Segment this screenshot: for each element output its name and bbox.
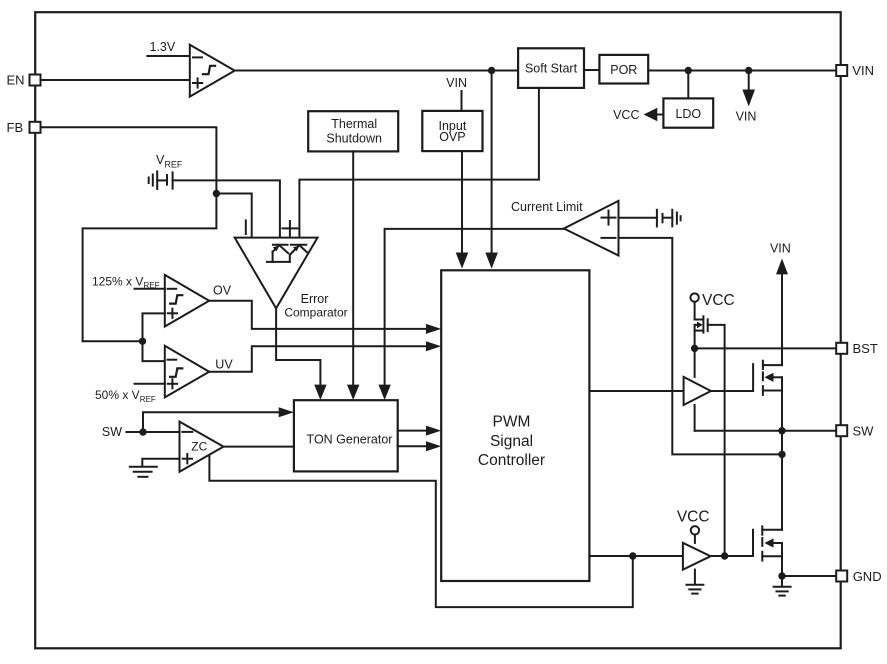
svg-text:BST: BST: [853, 341, 878, 356]
wire low-side source to ground: [781, 543, 783, 576]
box TON Generator: [294, 400, 398, 471]
wire PWM controller to low-side driver: [589, 555, 683, 557]
node VIN arrow branch: [745, 67, 752, 74]
svg-text:Current Limit: Current Limit: [511, 200, 583, 214]
pin BST: [836, 343, 847, 354]
op-amp OV comparator: [165, 275, 209, 327]
svg-text:VCC: VCC: [702, 292, 735, 309]
op-amp EN comparator U1: [190, 45, 235, 97]
wire down to LDO: [687, 71, 689, 99]
wire VREF battery to error comparator plus input: [173, 180, 280, 244]
svg-text:VIN: VIN: [446, 76, 467, 90]
svg-text:POR: POR: [610, 63, 637, 77]
wire Soft Start bottom to error comparator reference: [299, 88, 539, 244]
svg-text:OVP: OVP: [439, 130, 465, 144]
transistor Q1 bootstrap switch: [695, 302, 708, 349]
svg-text:50% x V: 50% x V: [95, 388, 140, 402]
svg-text:VCC: VCC: [613, 108, 639, 122]
svg-text:REF: REF: [144, 281, 160, 290]
wire 50% reference to UV plus input: [135, 383, 165, 385]
wire BST rail to BST pin: [695, 347, 836, 349]
node low-side drive loop junction: [629, 552, 636, 559]
wire UV output to PWM controller: [209, 346, 426, 371]
ground low-side driver: [686, 585, 703, 594]
node GND junction: [778, 572, 785, 579]
buffer low-side driver: [683, 535, 711, 585]
battery VREF: [149, 171, 173, 189]
wire Input OVP to PWM controller: [461, 151, 463, 253]
ground low-side MOSFET source: [774, 576, 791, 596]
svg-text:VIN: VIN: [736, 109, 757, 123]
box LDO: [663, 98, 713, 127]
buffer high-side driver: [684, 348, 711, 430]
battery current limit offset: [657, 210, 681, 227]
wire current limit minus input to SW node: [619, 238, 783, 455]
svg-text:LDO: LDO: [675, 107, 701, 121]
node FB sense rail junction: [139, 338, 146, 345]
wire EN comparator output to Soft Start: [235, 70, 518, 72]
svg-text:Error: Error: [301, 292, 329, 306]
diode D2 inside error comparator: [290, 245, 308, 262]
wire diode common bracket: [267, 261, 290, 263]
svg-text:REF: REF: [164, 160, 183, 170]
wire SW input: [127, 431, 180, 433]
svg-text:VIN: VIN: [852, 63, 874, 78]
svg-text:1.3V: 1.3V: [150, 40, 176, 54]
wire ZC output to TON generator: [224, 446, 294, 448]
box Thermal Shutdown: [308, 111, 398, 151]
box Input OVP: [422, 111, 482, 151]
svg-text:PWM: PWM: [493, 414, 531, 431]
wire EN enable down to PWM controller: [491, 71, 493, 254]
wire 125% reference to OV minus input: [135, 288, 165, 290]
pin GND: [836, 571, 847, 582]
wire TON generator output 1 to PWM controller: [398, 430, 427, 432]
terminal VCC bootstrap: [690, 293, 698, 301]
svg-text:VCC: VCC: [677, 509, 710, 526]
wire Thermal Shutdown to TON generator: [352, 151, 354, 385]
svg-text:Soft Start: Soft Start: [525, 62, 578, 76]
wire high-side gate: [711, 364, 753, 391]
node SW junction: [778, 427, 785, 434]
box POR: [599, 55, 648, 84]
diode D1 inside error comparator: [273, 245, 289, 262]
transistor Q3 low-side MOSFET: [762, 526, 782, 560]
node bootstrap gate junction: [721, 552, 728, 559]
svg-text:VIN: VIN: [770, 241, 791, 255]
pin FB: [30, 122, 41, 133]
pin SW: [836, 425, 847, 436]
wire FB pin to error comparator: [41, 127, 217, 341]
wire current limit plus input to offset battery: [619, 217, 657, 219]
svg-text:OV: OV: [213, 283, 232, 297]
wire SW line to SW pin: [695, 430, 836, 432]
svg-text:Comparator: Comparator: [284, 306, 347, 320]
node SW input junction: [139, 428, 146, 435]
wire ZC plus input to ground: [142, 459, 179, 466]
pin VIN: [836, 65, 847, 76]
node LDO branch: [685, 67, 692, 74]
wire SW to TON generator input arrow: [143, 412, 280, 432]
wire rail to UV minus input: [143, 341, 165, 361]
svg-text:125% x V: 125% x V: [92, 275, 143, 289]
wire OV output to PWM controller: [209, 301, 426, 329]
wire 1.3V to comparator - input: [147, 55, 189, 57]
box PWM Signal Controller: [441, 270, 589, 581]
svg-text:Shutdown: Shutdown: [326, 131, 382, 145]
box Soft Start: [518, 48, 584, 88]
ground ZC comparator: [130, 467, 157, 477]
wire high-side source to SW line: [781, 377, 783, 430]
svg-text:REF: REF: [140, 395, 156, 404]
svg-text:TON Generator: TON Generator: [307, 433, 393, 447]
node current limit SW junction: [778, 451, 785, 458]
wire error comparator output to TON generator: [276, 308, 320, 385]
node FB junction: [213, 190, 220, 197]
svg-text:SW: SW: [102, 425, 122, 439]
wire bootstrap gate to low-side drive: [708, 325, 725, 556]
wire LDO to VCC arrow: [656, 114, 663, 116]
wire Soft Start to POR: [584, 69, 599, 71]
svg-text:Controller: Controller: [478, 452, 545, 469]
op-amp ZC comparator: [180, 422, 224, 472]
wire VIN branch arrow down: [748, 71, 750, 91]
svg-text:ZC: ZC: [191, 439, 207, 453]
terminal VCC low-side driver: [691, 526, 699, 534]
wire TON generator output 2 to PWM controller: [398, 445, 427, 447]
wire high-side drain to VIN: [781, 274, 783, 365]
svg-text:UV: UV: [215, 358, 233, 372]
wire SW node down to low-side drain: [781, 431, 783, 530]
wire FB to error comparator minus input: [216, 194, 251, 238]
wire low-side gate: [711, 530, 753, 556]
node BST rail junction: [691, 345, 698, 352]
wire ZC gate loop to low-side drive: [209, 456, 632, 608]
svg-text:EN: EN: [7, 73, 25, 88]
op-amp current limit comparator: [564, 201, 619, 256]
wire EN pin to comparator + input: [41, 79, 190, 81]
svg-text:FB: FB: [7, 120, 24, 135]
svg-text:Thermal: Thermal: [331, 117, 377, 131]
svg-text:GND: GND: [853, 569, 882, 584]
pin EN: [30, 75, 41, 86]
transistor Q2 high-side MOSFET: [763, 361, 782, 395]
svg-text:SW: SW: [853, 423, 875, 438]
wire VIN label to Input OVP: [461, 91, 463, 111]
wire POR to VIN pin: [648, 70, 835, 72]
svg-text:Signal: Signal: [490, 433, 533, 450]
wire PWM controller to high-side driver: [589, 390, 683, 392]
wire rail to OV plus input: [143, 313, 165, 341]
wire current limit output to TON generator: [385, 229, 564, 386]
wire GND node to GND pin: [782, 575, 835, 577]
op-amp UV comparator: [165, 346, 209, 398]
node EN enable junction: [488, 67, 495, 74]
op-amp error comparator: [235, 220, 318, 308]
